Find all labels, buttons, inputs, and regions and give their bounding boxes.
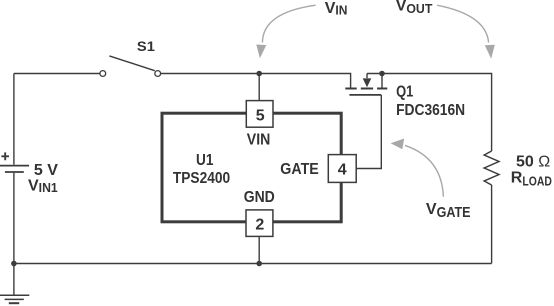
svg-text:VIN: VIN [325,0,348,18]
wire left vertical lower [13,173,15,295]
wire left vertical upper [13,74,15,165]
wire bottom rail [14,263,492,265]
annotation arrow VGATE curve [405,145,443,196]
annotation arrow VGATE head [391,139,405,150]
node junction dot bottom left [11,261,17,267]
svg-text:VGATE: VGATE [426,201,471,221]
svg-text:VIN1: VIN1 [28,177,58,195]
wire pin2 drop [258,236,260,263]
wire top rail right [367,74,492,152]
annotation arrow VOUT curve [437,5,489,42]
svg-text:S1: S1 [137,38,155,54]
svg-text:FDC3616N: FDC3616N [396,102,465,119]
annotation arrow VIN curve [262,5,315,42]
switch S1 right contact [155,71,161,77]
svg-text:VIN: VIN [247,132,270,149]
ground bar 1 [0,294,29,296]
node junction dot Q1 drain [379,71,385,77]
svg-text:RLOAD: RLOAD [511,169,552,188]
transistor Q1 drain stub [381,74,383,88]
svg-text:5 V: 5 V [34,162,58,179]
svg-text:TPS2400: TPS2400 [173,170,230,187]
battery V_IN1 plate long [0,165,29,167]
svg-text:GATE: GATE [280,161,319,178]
node junction dot VIN rail [256,71,262,77]
node junction dot bottom middle [256,261,262,267]
wire pin5 drop [258,74,260,101]
annotation arrow VIN head [256,45,266,59]
wire right vertical lower [491,185,493,264]
wire top rail left [14,73,100,75]
pin 5 box [246,101,273,128]
op-amp U1 box [162,113,341,222]
ground bar 2 [5,298,24,300]
wire top rail middle + Q1 source stub [161,74,351,88]
annotation arrow VOUT head [485,45,495,59]
svg-text:VOUT: VOUT [396,0,433,16]
battery V_IN1 plate short [5,171,24,173]
transistor Q1 gate line [349,94,381,96]
transistor Q1 source bar [345,88,356,90]
wire gate to pin4 [356,95,381,169]
svg-text:U1: U1 [196,152,213,169]
transistor Q1 drain bar [377,88,387,90]
ground bar 3 [9,302,19,304]
pin 2 box [246,210,273,237]
svg-text:50 Ω: 50 Ω [516,153,550,170]
resistor RLOAD zigzag [484,151,499,185]
pin 4 box [328,155,356,183]
svg-text:2: 2 [255,217,264,234]
svg-text:4: 4 [338,161,347,178]
transistor Q1 body stub [366,74,368,79]
svg-text:Q1: Q1 [396,83,413,100]
switch S1 left contact [100,71,106,77]
battery plus sign [1,152,9,160]
svg-text:GND: GND [244,189,275,206]
transistor Q1 body arrow [363,78,372,87]
transistor Q1 body bar [361,88,373,90]
svg-text:5: 5 [256,107,265,124]
switch S1 blade [109,56,154,71]
